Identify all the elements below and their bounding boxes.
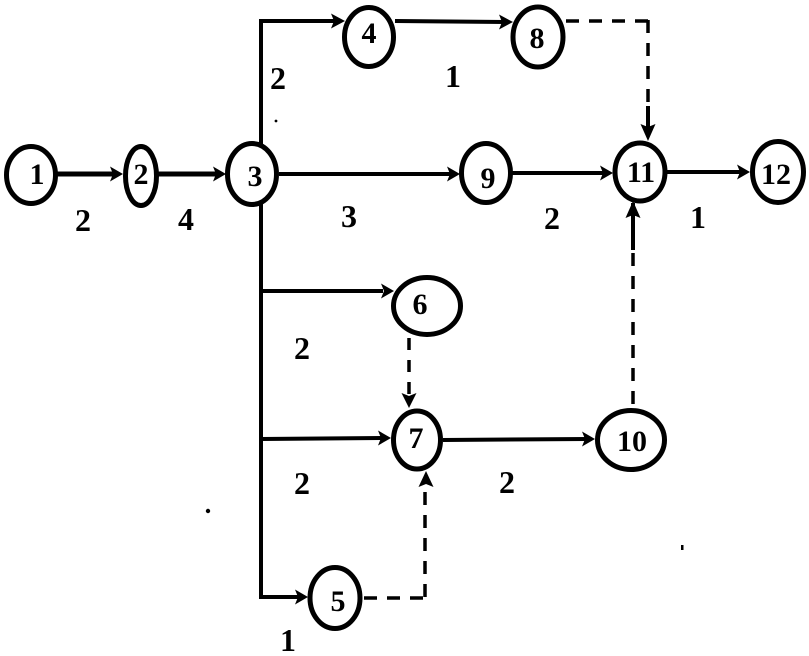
speck dash: [681, 545, 684, 550]
wire 3-9: [279, 172, 452, 176]
node 5: [310, 568, 360, 629]
wire dashed 8-11: [566, 19, 650, 23]
svg-text:9: 9: [481, 162, 496, 195]
wire 3-down-trunk: [259, 204, 263, 597]
node 11: [615, 143, 665, 201]
svg-text:12: 12: [761, 158, 791, 191]
svg-text:1: 1: [690, 199, 706, 235]
node 7: [394, 411, 441, 469]
node 1: [7, 147, 56, 204]
wire 8-11 solid stem: [646, 106, 650, 127]
wire 11-12: [667, 170, 741, 174]
arrowhead into 9: [447, 167, 460, 182]
svg-text:1: 1: [445, 58, 461, 94]
arrowhead into 6: [381, 284, 394, 299]
svg-text:1: 1: [280, 622, 296, 656]
svg-text:4: 4: [178, 201, 194, 237]
svg-text:3: 3: [341, 198, 357, 234]
speck dot: [206, 509, 210, 513]
wire 7-10: [443, 439, 587, 440]
svg-text:6: 6: [413, 288, 428, 321]
wire 3-5: [261, 560, 300, 597]
wire dashed 5-7: [364, 596, 427, 600]
svg-text:4: 4: [362, 17, 377, 50]
svg-text:2: 2: [75, 202, 91, 238]
svg-text:2: 2: [134, 158, 149, 191]
arrowhead into 11 from 9: [600, 166, 613, 181]
arrowhead into 12: [737, 165, 750, 180]
wire 2-3: [158, 172, 218, 177]
wire dashed 6-7: [407, 338, 411, 397]
arrowhead into 4: [331, 14, 345, 29]
arrowhead into 5: [295, 590, 308, 605]
arrowhead into 2: [110, 167, 123, 182]
speck dot 2: [275, 120, 278, 123]
wire 4-8: [395, 21, 505, 22]
wire 10-11 solid stem: [631, 203, 635, 250]
wire 3-6: [261, 289, 383, 293]
svg-text:5: 5: [331, 585, 346, 618]
arrowhead into 7 from 6 (down): [402, 393, 417, 408]
node 8: [513, 7, 563, 67]
arrowhead into 3: [213, 167, 226, 182]
svg-text:11: 11: [627, 156, 655, 189]
node 3: [228, 144, 277, 205]
node 12: [753, 142, 804, 203]
svg-text:2: 2: [294, 330, 310, 366]
arrowhead into 11 from 8 (down): [641, 124, 656, 141]
wire 9-11: [512, 171, 606, 175]
node 4: [345, 8, 394, 67]
wire 1-2: [56, 172, 116, 177]
node 2: [126, 147, 157, 206]
svg-text:1: 1: [30, 158, 45, 191]
svg-text:10: 10: [617, 425, 647, 458]
arrowhead into 10: [582, 432, 595, 447]
wire dashed 10-11: [631, 252, 635, 404]
svg-text:2: 2: [499, 464, 515, 500]
svg-text:2: 2: [544, 200, 560, 236]
svg-text:7: 7: [409, 422, 424, 455]
svg-text:2: 2: [294, 465, 310, 501]
arrowhead into 8: [499, 15, 513, 30]
node 10: [598, 411, 665, 470]
svg-text:8: 8: [530, 22, 545, 55]
arrowhead into 7 from 5 (up): [419, 471, 434, 487]
node 9: [462, 144, 511, 203]
wire 3-7: [261, 438, 383, 439]
svg-text:2: 2: [270, 60, 286, 96]
node 6: [394, 278, 461, 335]
wire 3-up-to-4: [261, 21, 338, 145]
arrowhead into 11 from 10 (up): [626, 201, 641, 218]
arrowhead into 7 from 3: [378, 431, 391, 446]
svg-text:3: 3: [248, 160, 263, 193]
